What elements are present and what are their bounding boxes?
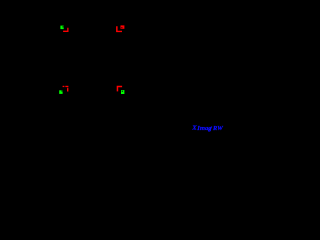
signature text (blue italic)	[191, 125, 224, 133]
pad square P1 (green)	[60, 26, 63, 30]
corner bracket B3 (red, opens down-left) dash 1	[63, 86, 65, 87]
pad square P2 (red)	[121, 25, 125, 28]
bracket B3 junction (dim)	[67, 87, 68, 88]
bracket B3 gap	[64, 86, 65, 87]
corner bracket B4 (red, opens down-right)	[117, 86, 122, 92]
fiducial group bottom-left	[59, 86, 68, 94]
corner bracket B1 (red, opens up-left)	[63, 28, 68, 32]
background field	[0, 0, 225, 135]
fiducial group top-right	[116, 25, 124, 32]
signature slash	[208, 127, 212, 132]
pad square P4 (green)	[121, 90, 124, 94]
bracket B3 dash 2 with corner	[65, 86, 68, 87]
fiducial group top-left	[60, 26, 68, 32]
bracket B3 vertical dash	[67, 88, 68, 91]
fiducial group bottom-right	[117, 86, 125, 94]
svg-text:RW: RW	[212, 125, 224, 132]
pad square P3 (green)	[59, 90, 62, 94]
corner bracket B2 (red, opens up-right)	[116, 26, 122, 32]
